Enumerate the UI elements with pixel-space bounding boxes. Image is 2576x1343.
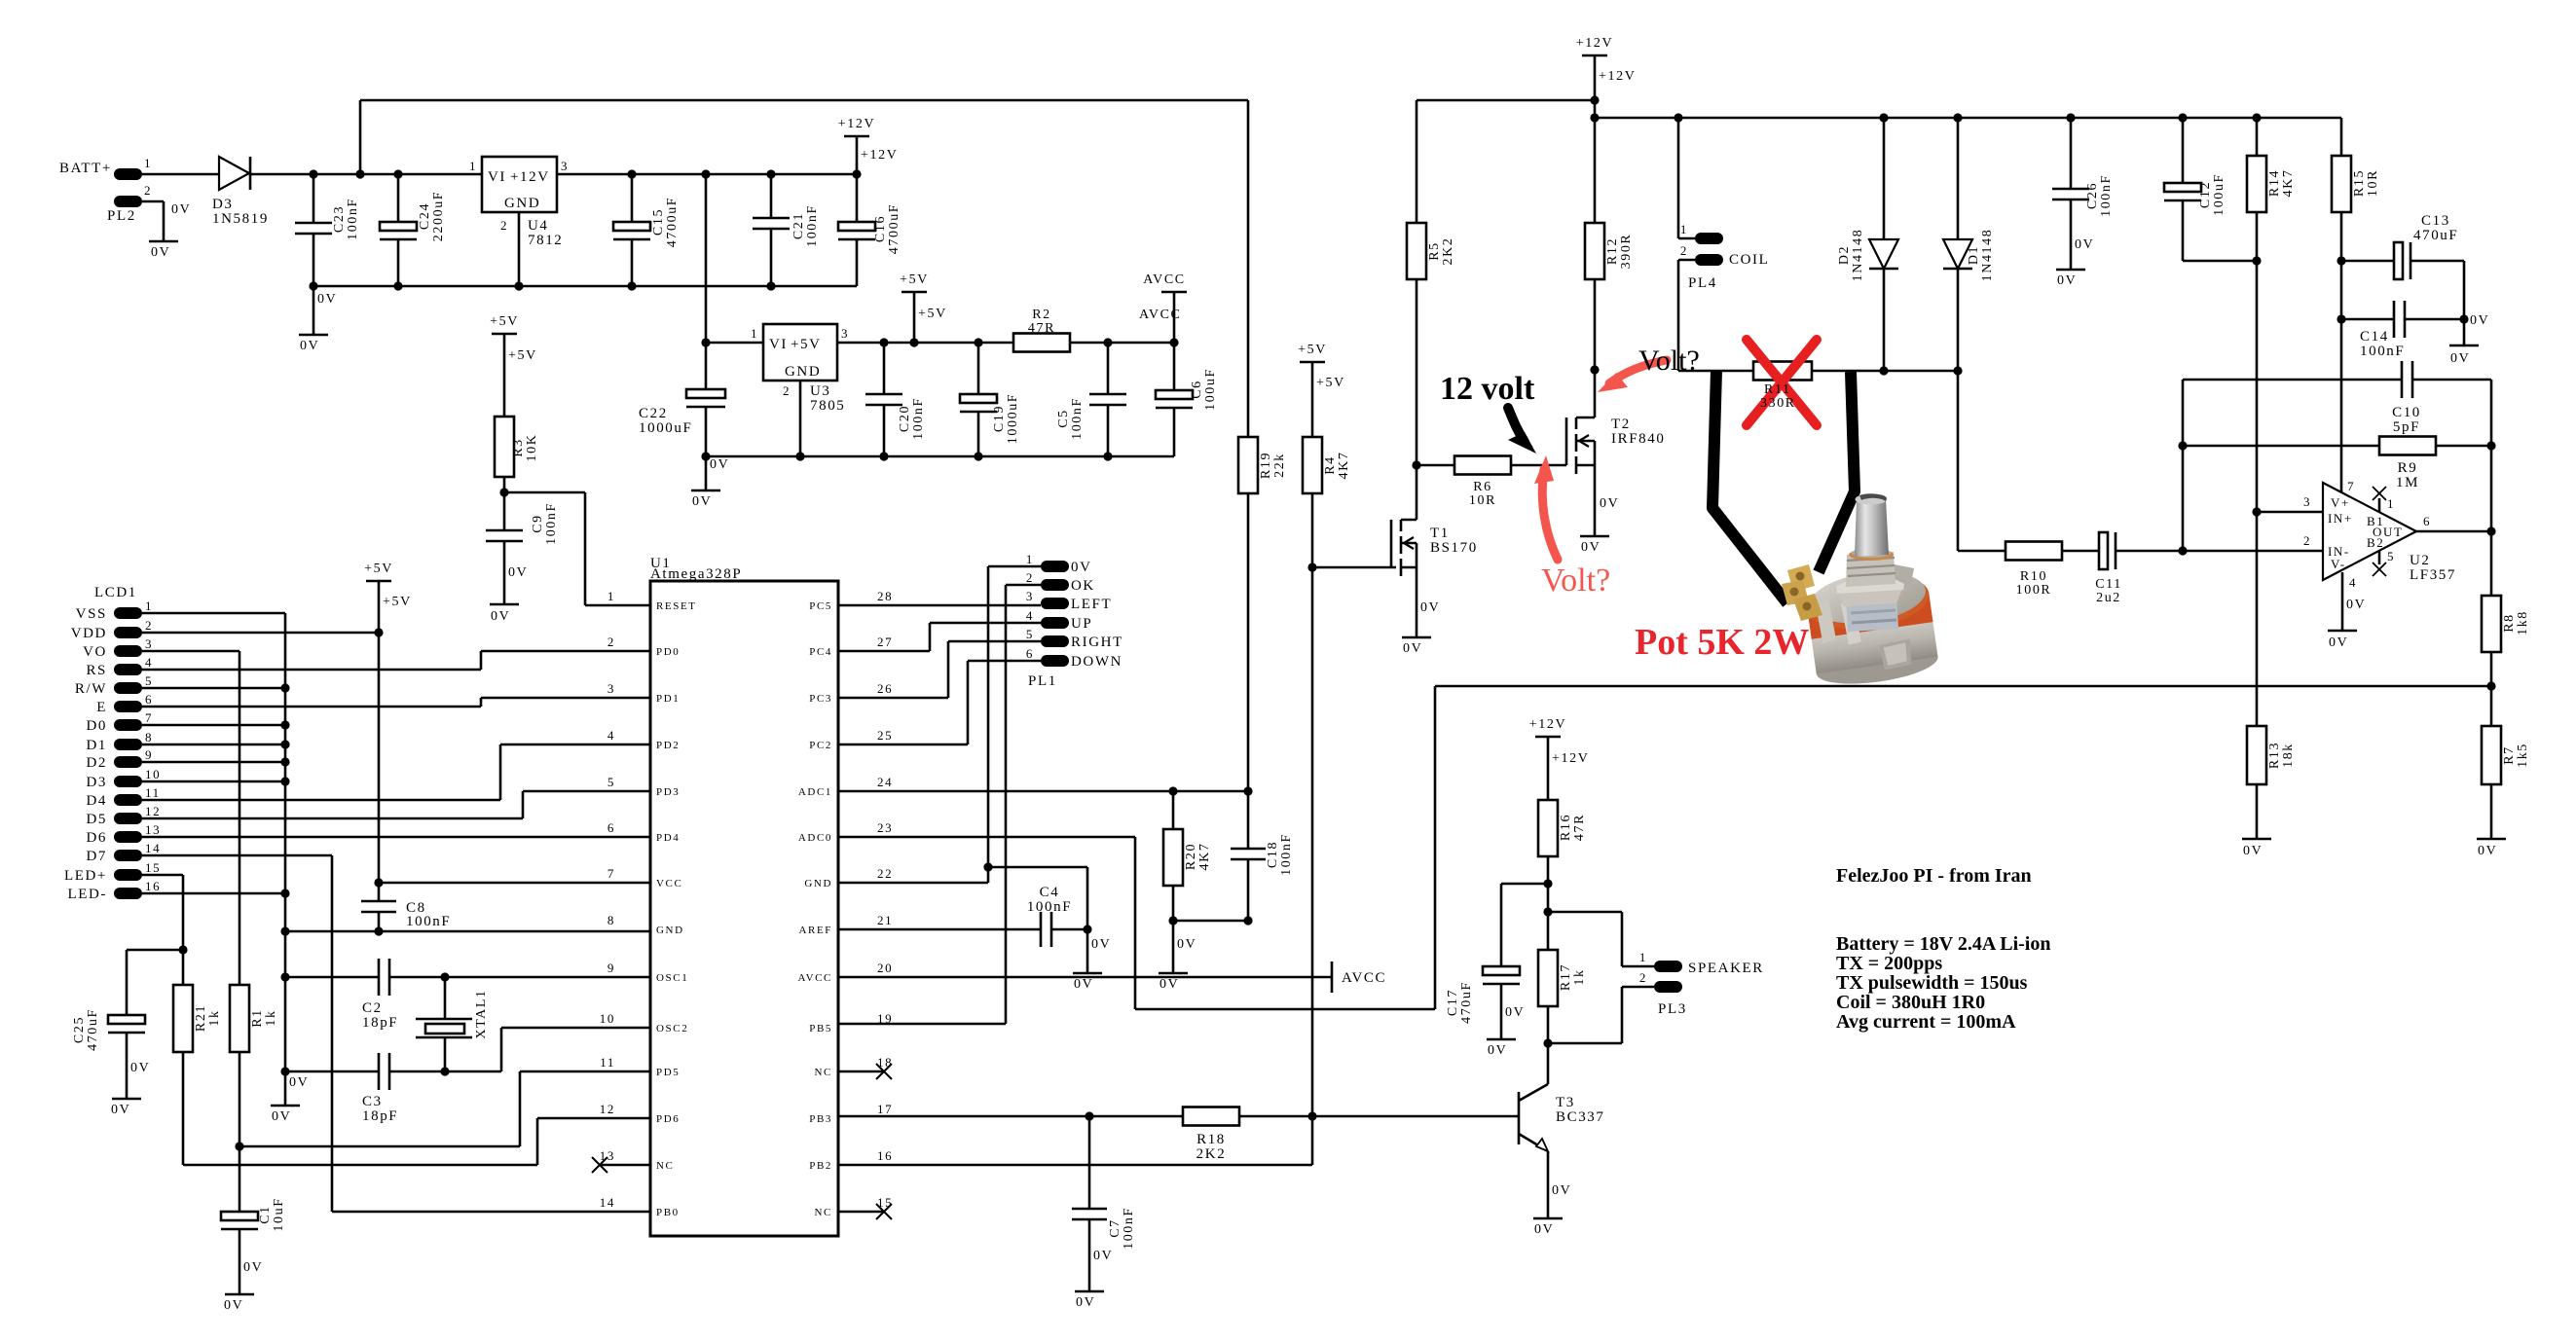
svg-text:R10: R10 [2020,569,2047,584]
svg-text:2: 2 [1639,970,1647,985]
svg-text:4: 4 [145,655,153,670]
svg-text:23: 23 [877,820,893,835]
svg-text:6: 6 [2423,514,2431,528]
svg-text:LF357: LF357 [2410,567,2456,583]
svg-text:R2: R2 [1032,308,1051,322]
svg-text:Coil = 380uH 1R0: Coil = 380uH 1R0 [1836,992,1985,1013]
svg-text:C5: C5 [1056,409,1071,428]
svg-text:0V: 0V [171,202,191,217]
svg-text:1: 1 [751,326,758,341]
svg-text:R5: R5 [1427,241,1442,261]
svg-text:R19: R19 [1259,452,1273,479]
svg-text:1: 1 [145,599,153,613]
svg-text:1k: 1k [1572,968,1587,985]
svg-text:5pF: 5pF [2393,419,2420,435]
svg-text:1: 1 [469,159,477,173]
svg-text:6: 6 [607,820,615,835]
svg-text:100uF: 100uF [1203,368,1218,411]
svg-text:D1: D1 [86,738,107,753]
svg-text:47R: 47R [1028,321,1055,336]
svg-text:8: 8 [145,730,153,744]
svg-text:5: 5 [1026,627,1034,641]
svg-text:TX = 200pps: TX = 200pps [1836,953,1942,974]
svg-text:R17: R17 [1559,963,1573,991]
svg-text:R15: R15 [2352,169,2367,197]
svg-text:Pot 5K 2W: Pot 5K 2W [1635,622,1809,663]
svg-text:100R: 100R [2016,583,2052,598]
svg-text:0V: 0V [1505,1005,1525,1020]
svg-text:10K: 10K [525,434,539,462]
svg-text:3: 3 [607,681,615,696]
svg-text:+5V: +5V [1316,376,1345,390]
svg-text:FelezJoo PI - from Iran: FelezJoo PI - from Iran [1836,865,2032,887]
svg-text:D2: D2 [1837,245,1852,265]
svg-text:C24: C24 [418,202,432,230]
svg-text:0V: 0V [1177,937,1196,952]
svg-text:7: 7 [145,710,153,725]
svg-text:21: 21 [877,913,893,927]
svg-text:3: 3 [841,326,849,341]
svg-text:6: 6 [1026,646,1034,661]
svg-text:PC2: PC2 [809,740,832,751]
svg-text:18k: 18k [2281,743,2296,768]
svg-text:18pF: 18pF [362,1015,398,1031]
svg-text:R6: R6 [1473,480,1492,494]
svg-text:11: 11 [145,785,161,800]
svg-text:0V: 0V [2075,237,2094,252]
svg-text:R1: R1 [250,1008,265,1028]
svg-text:0V: 0V [1420,600,1440,615]
svg-text:C16: C16 [873,215,888,242]
svg-text:18: 18 [877,1055,893,1070]
svg-text:AVCC: AVCC [797,972,832,984]
svg-text:0V: 0V [243,1260,263,1275]
svg-text:R16: R16 [1559,814,1573,841]
svg-text:+12V: +12V [1552,751,1589,766]
svg-text:PD1: PD1 [656,693,680,705]
svg-text:R13: R13 [2267,742,2282,769]
svg-text:D2: D2 [86,755,107,771]
svg-text:C22: C22 [639,406,668,421]
svg-text:12 volt: 12 volt [1440,371,1535,407]
svg-text:T2: T2 [1611,417,1631,432]
svg-text:15: 15 [877,1195,893,1210]
svg-text:28: 28 [877,589,893,603]
svg-text:0V: 0V [2329,635,2348,650]
svg-text:PB3: PB3 [809,1113,832,1125]
svg-text:2: 2 [145,618,153,633]
svg-text:R7: R7 [2502,745,2517,765]
svg-text:5: 5 [2387,549,2395,563]
svg-text:4K7: 4K7 [1197,843,1212,871]
svg-text:D4: D4 [86,793,107,809]
svg-text:D5: D5 [86,812,107,827]
svg-text:GND: GND [504,196,540,211]
svg-text:2: 2 [144,183,152,198]
svg-text:RIGHT: RIGHT [1071,635,1123,650]
svg-text:14: 14 [145,841,161,855]
svg-text:R14: R14 [2267,169,2282,197]
svg-text:1N4148: 1N4148 [1980,229,1995,282]
svg-text:2: 2 [500,218,508,233]
svg-text:GND: GND [785,364,821,380]
svg-text:100nF: 100nF [1279,833,1294,876]
svg-text:0V: 0V [1091,937,1111,952]
svg-text:25: 25 [877,728,893,743]
svg-text:0V: 0V [1488,1043,1507,1058]
svg-text:D6: D6 [86,830,107,846]
svg-text:0V: 0V [317,292,337,307]
svg-text:1: 1 [1680,222,1688,236]
svg-text:0V: 0V [1071,560,1092,575]
svg-text:PD0: PD0 [656,646,680,658]
svg-text:R3: R3 [511,438,526,457]
svg-text:7805: 7805 [810,398,845,414]
svg-text:V+: V+ [2331,495,2350,510]
svg-text:R8: R8 [2502,613,2517,633]
svg-text:UP: UP [1071,616,1092,632]
svg-text:4K7: 4K7 [2281,169,2296,198]
svg-text:0V: 0V [710,457,729,472]
svg-text:T3: T3 [1556,1095,1575,1110]
svg-text:IRF840: IRF840 [1611,431,1665,447]
svg-text:0V: 0V [1552,1183,1571,1198]
svg-text:Avg current = 100mA: Avg current = 100mA [1836,1011,2016,1033]
svg-text:0V: 0V [2346,598,2366,612]
svg-text:BATT+: BATT+ [59,161,112,176]
svg-text:2: 2 [1680,243,1688,258]
svg-text:D1: D1 [1967,245,1981,265]
svg-text:0V: 0V [2478,844,2497,858]
svg-text:0V: 0V [2450,351,2470,366]
svg-text:100nF: 100nF [1070,397,1085,440]
svg-text:100nF: 100nF [346,198,360,240]
svg-text:6: 6 [145,692,153,707]
svg-text:0V: 0V [1600,496,1619,511]
svg-text:2K2: 2K2 [1196,1146,1227,1162]
svg-text:100nF: 100nF [911,397,926,440]
svg-text:7: 7 [607,866,615,881]
svg-text:100uF: 100uF [2212,173,2226,216]
svg-text:0V: 0V [491,609,510,624]
svg-text:PD6: PD6 [656,1113,680,1125]
svg-text:1k: 1k [207,1009,222,1026]
svg-text:0V: 0V [151,245,170,260]
svg-text:+5V: +5V [364,562,393,576]
svg-text:100nF: 100nF [1122,1207,1136,1250]
svg-text:AREF: AREF [798,925,832,936]
svg-text:VI: VI [769,337,788,352]
svg-text:12: 12 [145,804,161,818]
svg-text:2: 2 [783,383,791,398]
svg-text:R11: R11 [1764,382,1791,397]
svg-text:C3: C3 [362,1094,383,1109]
svg-text:330R: 330R [1760,396,1796,411]
svg-text:1N5819: 1N5819 [212,211,269,227]
svg-text:C18: C18 [1266,841,1280,868]
svg-text:4: 4 [1026,608,1034,623]
svg-text:NC: NC [656,1160,674,1172]
svg-text:PC3: PC3 [809,693,832,705]
svg-text:1000uF: 1000uF [639,420,692,436]
svg-text:+12V: +12V [838,117,875,131]
svg-text:18pF: 18pF [362,1108,398,1124]
svg-text:GND: GND [656,925,684,936]
svg-text:C17: C17 [1446,989,1460,1016]
svg-text:100nF: 100nF [2360,344,2405,359]
svg-text:PC5: PC5 [809,600,832,612]
svg-text:+5V: +5V [791,337,822,352]
svg-text:0V: 0V [2057,273,2077,288]
svg-text:19: 19 [877,1011,893,1026]
svg-text:VSS: VSS [76,606,107,622]
svg-text:TX pulsewidth = 150us: TX pulsewidth = 150us [1836,972,2028,994]
svg-text:100nF: 100nF [1027,899,1072,915]
svg-text:PL1: PL1 [1028,673,1057,689]
svg-text:1M: 1M [2396,475,2419,490]
svg-text:C23: C23 [332,205,347,233]
svg-text:470uF: 470uF [2413,228,2458,243]
svg-text:0V: 0V [692,494,712,509]
svg-text:1k: 1k [264,1009,278,1026]
svg-text:4700uF: 4700uF [665,197,680,247]
svg-text:15: 15 [145,860,161,875]
svg-text:D0: D0 [86,718,107,734]
svg-text:9: 9 [607,961,615,975]
svg-text:LED-: LED- [67,887,107,902]
svg-text:9: 9 [145,747,153,762]
svg-text:+5V: +5V [490,314,519,329]
svg-text:470uF: 470uF [86,1008,100,1051]
svg-text:U3: U3 [810,383,831,399]
svg-text:R18: R18 [1196,1132,1226,1147]
svg-text:4K7: 4K7 [1337,452,1351,480]
svg-text:PD3: PD3 [656,786,680,798]
svg-text:C9: C9 [531,514,545,533]
svg-text:R9: R9 [2398,460,2418,476]
svg-text:4: 4 [2349,575,2357,590]
svg-text:1k8: 1k8 [2516,610,2530,635]
svg-text:0V: 0V [300,339,319,353]
svg-text:0V: 0V [130,1061,150,1075]
svg-text:C25: C25 [72,1016,87,1043]
svg-text:Atmega328P: Atmega328P [650,566,742,582]
svg-text:0V: 0V [1093,1249,1113,1263]
svg-text:C13: C13 [2421,213,2450,229]
svg-text:U4: U4 [528,218,549,234]
svg-text:4700uF: 4700uF [887,203,902,254]
svg-text:22k: 22k [1272,453,1287,478]
svg-text:Volt?: Volt? [1541,563,1610,599]
svg-text:R4: R4 [1323,455,1338,475]
svg-text:R20: R20 [1184,843,1198,870]
svg-text:7: 7 [2347,479,2355,493]
svg-text:2: 2 [1026,570,1034,585]
svg-text:C4: C4 [1040,885,1060,900]
svg-text:3: 3 [1026,589,1034,603]
svg-text:C21: C21 [791,212,806,239]
svg-text:U2: U2 [2410,553,2431,568]
svg-text:C2: C2 [362,1000,383,1016]
svg-text:PL3: PL3 [1658,1001,1687,1017]
svg-text:10uF: 10uF [272,1197,286,1231]
svg-text:LEFT: LEFT [1071,597,1112,612]
svg-text:PB0: PB0 [656,1207,680,1218]
svg-text:PD5: PD5 [656,1067,680,1078]
svg-text:BC337: BC337 [1556,1109,1605,1125]
svg-text:B2: B2 [2367,535,2384,550]
svg-text:DOWN: DOWN [1071,654,1122,670]
svg-text:V-: V- [2331,557,2346,571]
svg-text:C15: C15 [651,208,666,236]
svg-text:0V: 0V [272,1109,291,1124]
svg-text:390R: 390R [1619,234,1634,270]
svg-text:+5V: +5V [383,595,412,609]
svg-text:0V: 0V [1076,1295,1095,1310]
svg-text:8: 8 [607,913,615,927]
svg-text:OSC2: OSC2 [656,1023,688,1034]
svg-text:C7: C7 [1108,1218,1122,1238]
svg-text:1000uF: 1000uF [1006,393,1020,444]
svg-text:C10: C10 [2392,405,2421,420]
svg-text:0V: 0V [1403,641,1422,656]
svg-text:AVCC: AVCC [1139,308,1182,322]
svg-text:10R: 10R [1469,493,1496,508]
svg-text:0V: 0V [1581,540,1601,555]
svg-text:12: 12 [600,1102,615,1116]
svg-text:VO: VO [83,644,107,660]
svg-text:PL4: PL4 [1688,275,1717,291]
svg-text:ADC1: ADC1 [798,786,832,798]
svg-text:0V: 0V [289,1075,309,1090]
svg-text:C14: C14 [2360,329,2389,345]
svg-text:SPEAKER: SPEAKER [1688,961,1764,976]
svg-text:0V: 0V [1074,977,1093,992]
svg-text:IN+: IN+ [2328,511,2353,526]
svg-text:+5V: +5V [918,307,947,321]
svg-text:+5V: +5V [508,348,537,363]
svg-text:3: 3 [561,159,569,173]
svg-text:D3: D3 [86,775,107,790]
svg-text:+5V: +5V [1298,343,1327,357]
svg-text:VCC: VCC [656,878,682,889]
svg-text:4: 4 [607,728,615,743]
svg-text:10: 10 [145,767,161,781]
svg-text:GND: GND [804,878,832,889]
svg-text:Battery = 18V 2.4A Li-ion: Battery = 18V 2.4A Li-ion [1836,933,2050,955]
svg-text:11: 11 [600,1055,615,1070]
svg-text:1: 1 [1026,552,1034,566]
svg-text:1: 1 [144,156,152,170]
svg-text:3: 3 [145,636,153,651]
svg-text:0V: 0V [1159,977,1179,992]
svg-text:5: 5 [607,775,615,789]
svg-text:LED+: LED+ [64,868,107,884]
svg-text:R21: R21 [194,1004,208,1032]
svg-text:10: 10 [600,1011,615,1026]
svg-text:3: 3 [2303,494,2311,509]
svg-text:R12: R12 [1605,237,1620,265]
svg-text:0V: 0V [508,565,528,580]
svg-text:PC4: PC4 [809,646,832,658]
svg-text:2200uF: 2200uF [431,191,446,241]
svg-text:LCD1: LCD1 [94,585,137,600]
svg-text:0V: 0V [111,1103,130,1117]
svg-text:22: 22 [877,866,893,881]
svg-text:2: 2 [607,635,615,649]
svg-text:COIL: COIL [1729,252,1769,268]
svg-text:20: 20 [877,961,893,975]
svg-text:C20: C20 [898,405,912,432]
svg-text:C6: C6 [1190,380,1204,399]
svg-text:1N4148: 1N4148 [1851,229,1865,282]
svg-text:C11: C11 [2095,577,2122,592]
svg-text:1: 1 [2387,496,2395,511]
svg-text:0V: 0V [2470,313,2489,328]
svg-text:XTAL1: XTAL1 [474,989,489,1038]
svg-text:ADC0: ADC0 [798,832,832,844]
svg-text:C19: C19 [992,405,1007,432]
svg-text:RS: RS [86,663,107,678]
svg-text:PL2: PL2 [107,208,136,224]
svg-text:26: 26 [877,681,893,696]
svg-text:470uF: 470uF [1459,981,1474,1024]
svg-text:24: 24 [877,775,893,789]
svg-text:16: 16 [877,1148,893,1163]
svg-text:VI: VI [488,169,506,185]
svg-text:7812: 7812 [528,233,563,248]
svg-text:NC: NC [815,1067,832,1078]
svg-text:VDD: VDD [71,626,107,641]
svg-text:D7: D7 [86,849,107,864]
svg-text:AVCC: AVCC [1342,970,1386,986]
svg-text:2u2: 2u2 [2096,591,2121,605]
svg-text:2K2: 2K2 [1441,237,1455,266]
svg-text:100nF: 100nF [805,204,820,247]
svg-text:13: 13 [145,822,161,837]
svg-text:AVCC: AVCC [1143,272,1186,287]
svg-text:100nF: 100nF [544,502,559,545]
svg-text:100nF: 100nF [2099,174,2114,217]
svg-text:0V: 0V [224,1298,243,1313]
svg-text:16: 16 [145,879,161,893]
svg-text:+12V: +12V [510,169,550,185]
svg-text:R/W: R/W [75,681,107,697]
svg-text:14: 14 [600,1195,615,1210]
svg-text:10R: 10R [2366,169,2380,197]
svg-text:+12V: +12V [861,148,898,163]
svg-text:PB2: PB2 [809,1160,832,1172]
svg-text:27: 27 [877,635,893,649]
svg-text:Volt?: Volt? [1638,345,1700,377]
svg-text:RESET: RESET [656,600,697,612]
svg-text:C12: C12 [2198,181,2213,208]
svg-text:+12V: +12V [1599,69,1636,84]
svg-text:13: 13 [600,1148,615,1163]
svg-text:1: 1 [1639,950,1647,964]
svg-text:PD4: PD4 [656,832,680,844]
svg-text:BS170: BS170 [1430,540,1478,556]
svg-text:C26: C26 [2085,182,2100,209]
svg-text:T1: T1 [1430,526,1450,541]
svg-text:D3: D3 [212,197,234,212]
svg-text:17: 17 [877,1102,893,1116]
svg-text:OK: OK [1071,578,1095,594]
svg-text:OSC1: OSC1 [656,972,688,984]
svg-text:0V: 0V [1534,1222,1554,1237]
svg-text:1k5: 1k5 [2516,743,2530,768]
svg-text:1: 1 [607,589,615,603]
